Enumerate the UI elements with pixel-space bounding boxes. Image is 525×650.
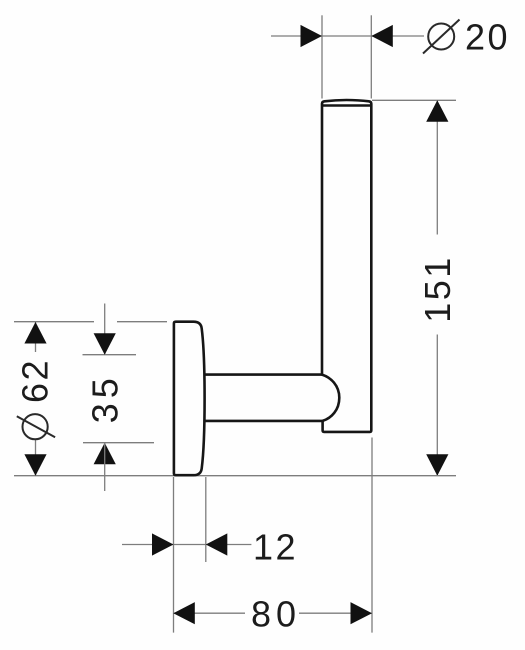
svg-text:20: 20 [465, 17, 510, 58]
dim line 12 [122, 544, 251, 546]
wall plate outline [174, 322, 205, 476]
dim line Ø62 upper segment [35, 322, 37, 352]
arrow Ø20 left [301, 25, 323, 47]
arrow 35 top [94, 333, 116, 355]
arrow 151 bottom [426, 454, 448, 476]
arrow 151 top [426, 100, 448, 122]
extension line 12 left [173, 477, 175, 633]
svg-text:80: 80 [251, 594, 301, 635]
dim line 151 upper segment [436, 100, 438, 234]
arm bottom line [205, 420, 323, 423]
extension line left of Ø20 [321, 15, 323, 98]
arrow Ø62 top [24, 322, 46, 344]
dim line 80 left segment [173, 612, 245, 614]
dim line 35 lower stem [104, 443, 106, 491]
shared bottom extension line [14, 475, 456, 477]
extension line top of 151 [372, 99, 456, 101]
extension line right of Ø20 [370, 15, 372, 98]
extension line 12 right [205, 477, 207, 562]
dim line Ø62 lower segment [35, 439, 37, 476]
arm top line [205, 373, 322, 376]
diameter symbol of Ø62 rotated [17, 414, 55, 439]
dim line Ø20 horizontal [271, 35, 424, 37]
arrow 80 right [351, 602, 373, 624]
rod top cap seam [322, 104, 371, 107]
dim line 80 right segment [299, 612, 372, 614]
svg-text:35: 35 [85, 373, 126, 423]
dim line 35 upper stem [104, 304, 106, 355]
arrow 12 right [206, 533, 228, 555]
extension line 80 right [371, 438, 373, 633]
arrow Ø20 right [371, 25, 393, 47]
svg-text:151: 151 [417, 255, 458, 323]
extension line bottom of 35 [83, 442, 154, 444]
extension line top of Ø62 left part [14, 321, 94, 323]
extension line top of 35 [83, 354, 137, 356]
dim line 151 lower segment [436, 335, 438, 476]
arrow Ø62 bottom [24, 454, 46, 476]
arrow 80 left [173, 602, 195, 624]
svg-text:12: 12 [253, 526, 298, 567]
diameter symbol of Ø20 [423, 20, 460, 54]
svg-text:62: 62 [15, 358, 56, 403]
rod outline [322, 100, 371, 432]
arrow 12 left [152, 533, 174, 555]
extension line top of Ø62 right part [117, 321, 167, 323]
arrow 35 bottom [94, 443, 116, 465]
arm dome end cap [322, 375, 339, 421]
